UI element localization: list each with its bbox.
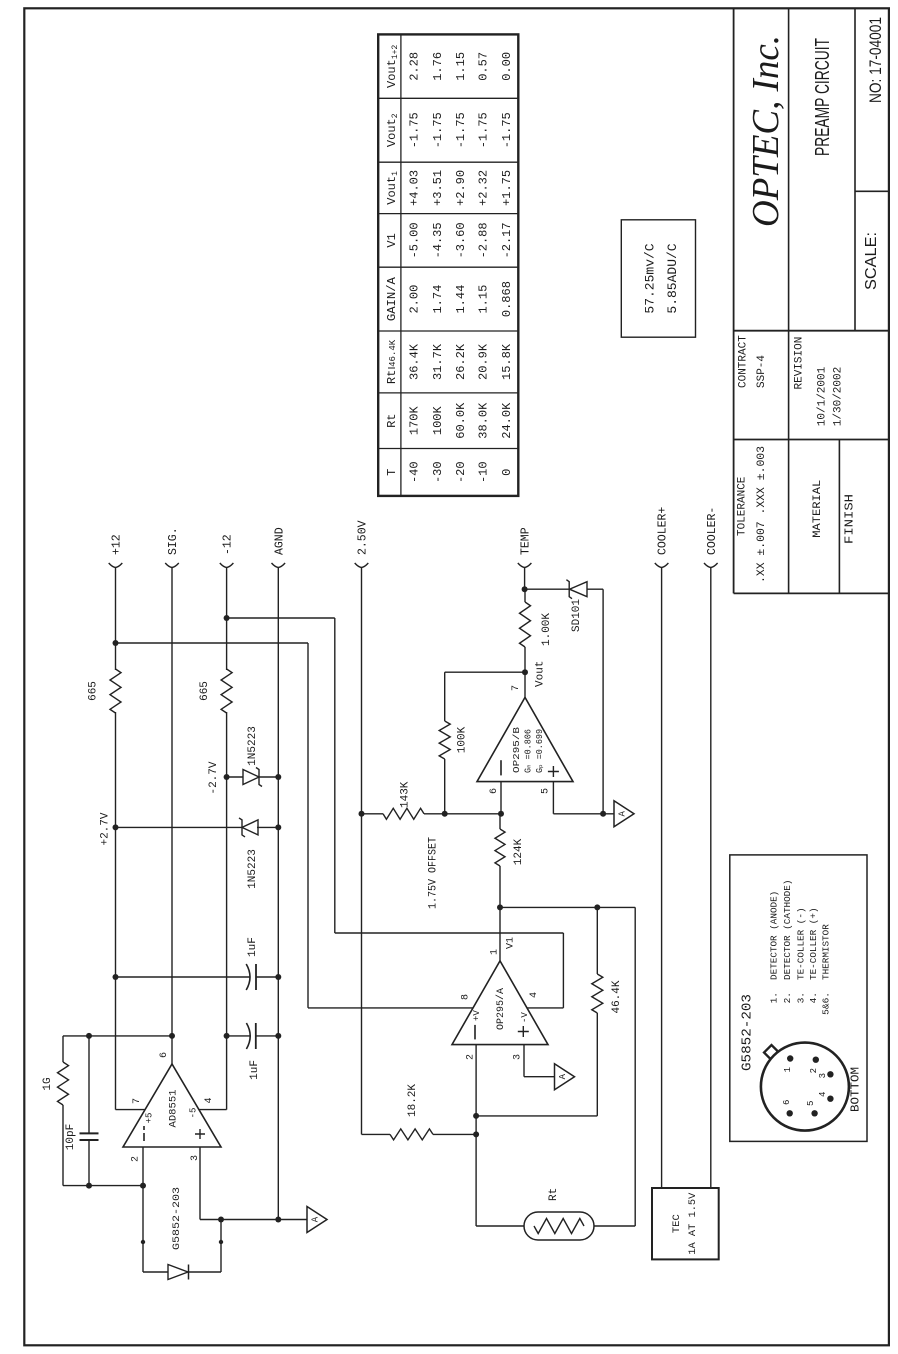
net SIG rail	[171, 568, 173, 1036]
svg-text:46.4K: 46.4K	[611, 980, 623, 1013]
svg-text:+4.03: +4.03	[407, 170, 421, 206]
capacitor C 10pF	[88, 1140, 90, 1186]
pin 3 wire	[199, 1147, 201, 1220]
svg-text:THERMISTOR: THERMISTOR	[820, 924, 831, 980]
svg-text:10pF: 10pF	[65, 1124, 77, 1150]
wire +2.7V rail	[116, 826, 243, 828]
svg-text:-10: -10	[476, 461, 490, 483]
svg-text:1uF: 1uF	[249, 1060, 261, 1080]
svg-text:18.2K: 18.2K	[407, 1084, 419, 1117]
node +2.7V junction	[113, 824, 119, 830]
svg-text:5: 5	[806, 1101, 816, 1106]
wire pin3 net to diode	[220, 1220, 222, 1273]
svg-text:OP295/B: OP295/B	[511, 727, 522, 773]
node Vout	[522, 669, 528, 675]
svg-text:0.868: 0.868	[500, 281, 514, 317]
svg-text:6: 6	[489, 788, 500, 794]
svg-text:665: 665	[199, 681, 211, 701]
svg-text:5: 5	[541, 788, 552, 794]
ground A (OP295/B)	[614, 801, 634, 827]
svg-text:G5852-203: G5852-203	[740, 994, 756, 1071]
svg-text:1.44: 1.44	[454, 285, 468, 314]
svg-text:Gₙ =0.806: Gₙ =0.806	[524, 729, 534, 773]
svg-text:2.50V: 2.50V	[357, 520, 370, 555]
pin 5	[811, 1110, 817, 1116]
resistor R 143K (1.75V offset)	[362, 813, 384, 815]
svg-text:0.57: 0.57	[476, 52, 490, 81]
svg-text:-2.7V: -2.7V	[208, 761, 220, 794]
svg-text:TOLERANCE: TOLERANCE	[737, 476, 749, 536]
net TEMP wire	[524, 568, 526, 590]
svg-text:.XX ±.007 .XXX ±.003: .XX ±.007 .XXX ±.003	[756, 446, 768, 583]
svg-text:1A AT 1.5V: 1A AT 1.5V	[687, 1192, 699, 1255]
connector +12	[109, 563, 123, 568]
svg-text:20.9K: 20.9K	[476, 343, 490, 380]
wire ground drop (stage1)	[200, 1219, 307, 1221]
svg-text:1.76: 1.76	[431, 52, 445, 81]
svg-text:1: 1	[490, 949, 501, 955]
svg-text:+1.75: +1.75	[500, 170, 514, 206]
title block	[733, 8, 735, 593]
svg-text:MATERIAL: MATERIAL	[812, 480, 824, 538]
svg-text:-1.75: -1.75	[500, 112, 514, 148]
svg-text:3: 3	[818, 1073, 828, 1078]
svg-text:7: 7	[511, 685, 522, 691]
wire V1 vertical	[500, 906, 635, 908]
pin 6	[787, 1110, 793, 1116]
svg-text:3: 3	[513, 1054, 524, 1060]
svg-text:OPTEC, Inc.: OPTEC, Inc.	[745, 35, 787, 227]
svg-text:-5.00: -5.00	[407, 222, 421, 258]
pin 4	[827, 1096, 833, 1102]
svg-text:TEMP: TEMP	[520, 527, 533, 555]
zener D 1N5223 (+2.7V)	[242, 820, 258, 835]
pin 5 wire	[552, 782, 554, 814]
connector COOLER+	[655, 563, 669, 568]
svg-text:-2.17: -2.17	[500, 222, 514, 258]
TEC block	[652, 1188, 719, 1259]
svg-text:2.00: 2.00	[407, 285, 421, 314]
pin 3 wire	[523, 1045, 525, 1077]
diode SD101	[525, 588, 570, 590]
node TEMP junction	[522, 586, 528, 592]
svg-text:+2.90: +2.90	[454, 170, 468, 206]
svg-text:SCALE:: SCALE:	[863, 232, 880, 290]
svg-text:-V: -V	[520, 1012, 530, 1023]
G5852-203 pinout box	[730, 855, 867, 1142]
data table	[378, 34, 518, 496]
svg-text:5.85ADU/C: 5.85ADU/C	[665, 243, 680, 313]
pin 7 (+5) wire	[116, 1109, 145, 1111]
svg-text:-12: -12	[222, 534, 235, 555]
svg-text:BOTTOM: BOTTOM	[849, 1067, 863, 1112]
connector -12	[220, 563, 234, 568]
svg-text:Rt: Rt	[385, 413, 399, 427]
svg-text:+12: +12	[111, 534, 124, 555]
svg-text:TE-COLLER (-): TE-COLLER (-)	[796, 907, 807, 980]
resistor R 1.00K	[524, 647, 526, 672]
svg-text:SSP-4: SSP-4	[756, 355, 768, 388]
capacitor 1uF (+2.7 to AGND)	[113, 974, 119, 980]
pin 2 wire	[142, 1147, 144, 1272]
svg-text:AD8551: AD8551	[169, 1090, 180, 1128]
svg-text:10/1/2001: 10/1/2001	[817, 366, 829, 426]
net +12 rail	[115, 568, 117, 671]
svg-text:SD101: SD101	[571, 599, 583, 632]
svg-text:NO: 17-04001: NO: 17-04001	[866, 17, 885, 103]
svg-text:1: 1	[783, 1067, 793, 1072]
svg-text:Vout2: Vout2	[385, 113, 400, 147]
resistor R 124K	[499, 866, 501, 907]
pin 2 wire (inverting)	[475, 1045, 477, 1226]
node -2.7V junction	[224, 774, 230, 780]
svg-text:+2.32: +2.32	[476, 170, 490, 206]
svg-text:38.0K: 38.0K	[476, 402, 490, 439]
net COOLER+ wire	[661, 568, 663, 1189]
wire SD101 return	[602, 589, 604, 814]
net AGND rail	[277, 568, 279, 1220]
svg-text:-40: -40	[407, 461, 421, 483]
svg-text:1.15: 1.15	[454, 52, 468, 81]
node SIG/output junction	[169, 1033, 175, 1039]
resistor R 665 (+12)	[110, 669, 121, 713]
pin 6 output wire	[171, 1036, 173, 1064]
svg-text:1/30/2002: 1/30/2002	[833, 367, 845, 426]
svg-text:2.28: 2.28	[407, 52, 421, 81]
svg-text:124K: 124K	[513, 838, 525, 865]
op-amp U OP295/B	[477, 697, 573, 781]
svg-text:26.2K: 26.2K	[454, 343, 468, 380]
photodiode G5852-203	[143, 1271, 168, 1273]
svg-text:4: 4	[818, 1092, 828, 1097]
svg-text:1.75V OFFSET: 1.75V OFFSET	[428, 837, 440, 909]
op-amp U AD8551	[123, 1064, 221, 1147]
connector SIG	[165, 563, 179, 568]
svg-text:+5: +5	[145, 1113, 155, 1124]
svg-text:8: 8	[461, 994, 472, 1000]
connector AGND	[272, 563, 286, 568]
svg-text:GAIN/A: GAIN/A	[385, 276, 399, 321]
svg-text:FINISH: FINISH	[844, 494, 857, 544]
svg-text:-1.75: -1.75	[476, 112, 490, 148]
svg-text:+3.51: +3.51	[431, 170, 445, 206]
net 2.50V rail	[361, 568, 363, 1135]
ground A (stage1)	[307, 1207, 327, 1233]
svg-text:1uF: 1uF	[247, 937, 259, 957]
svg-text:T: T	[385, 469, 399, 476]
connector 2.50V	[355, 563, 369, 568]
op-amp U OP295/A	[452, 961, 548, 1045]
connector COOLER-	[704, 563, 718, 568]
svg-text:2: 2	[131, 1156, 142, 1162]
svg-text:V1: V1	[506, 937, 517, 949]
wire +V supply route	[113, 640, 119, 646]
connector TEMP	[518, 563, 532, 568]
pin 7 output wire	[524, 672, 526, 697]
svg-text:-1.75: -1.75	[431, 112, 445, 148]
svg-text:AGND: AGND	[273, 527, 286, 555]
svg-text:7: 7	[132, 1098, 143, 1104]
wire feedback right vertical	[63, 1035, 172, 1037]
svg-text:DETECTOR (ANODE): DETECTOR (ANODE)	[769, 891, 780, 980]
zener D 1N5223 (-2.7V)	[243, 770, 259, 785]
svg-text:31.7K: 31.7K	[431, 343, 445, 380]
svg-text:-30: -30	[431, 461, 445, 483]
ground A (OP295/A)	[555, 1064, 575, 1090]
svg-text:CONTRACT: CONTRACT	[738, 335, 750, 388]
svg-text:3.: 3.	[796, 992, 807, 1003]
svg-text:143K: 143K	[400, 781, 412, 808]
svg-text:G5852-203: G5852-203	[171, 1187, 183, 1250]
resistor R 1G feedback	[62, 1105, 64, 1186]
wire -2.7V rail	[227, 776, 243, 778]
wire 2.50V to 143K junction	[359, 811, 365, 817]
resistor R 18.2K	[362, 1133, 391, 1135]
svg-text:60.0K: 60.0K	[454, 402, 468, 439]
net COOLER- wire	[710, 568, 712, 1189]
svg-text:100K: 100K	[457, 726, 469, 753]
resistor R 46.4K feedback	[596, 1013, 598, 1116]
svg-text:Vout: Vout	[535, 661, 547, 687]
svg-text:-3.60: -3.60	[454, 222, 468, 258]
pin 6 wire	[500, 782, 502, 814]
svg-text:COOLER-: COOLER-	[706, 507, 719, 555]
resistor R 100K feedback	[444, 759, 446, 814]
svg-text:-4.35: -4.35	[431, 222, 445, 258]
svg-text:1.15: 1.15	[476, 285, 490, 314]
svg-text:A: A	[558, 1073, 568, 1079]
svg-text:100K: 100K	[431, 406, 445, 436]
svg-text:0: 0	[500, 469, 514, 476]
svg-text:TE-COLLER (+): TE-COLLER (+)	[808, 907, 819, 980]
wire -V supply route	[224, 615, 230, 621]
gain summary box	[621, 220, 695, 337]
svg-text:24.0K: 24.0K	[500, 402, 514, 439]
svg-text:1N5223: 1N5223	[247, 726, 259, 766]
svg-text:4: 4	[529, 992, 540, 998]
svg-text:+V: +V	[472, 1010, 482, 1021]
svg-text:15.8K: 15.8K	[500, 343, 514, 380]
net -12 rail	[226, 568, 228, 671]
svg-text:-2.88: -2.88	[476, 222, 490, 258]
pin 2	[813, 1057, 819, 1063]
svg-text:A: A	[618, 811, 628, 817]
svg-text:36.4K: 36.4K	[407, 343, 421, 380]
svg-text:TEC: TEC	[671, 1214, 683, 1233]
svg-text:OP295/A: OP295/A	[495, 988, 507, 1030]
svg-text:2.: 2.	[782, 992, 793, 1003]
resistor R 665 (-12)	[221, 669, 232, 713]
svg-text:COOLER+: COOLER+	[657, 507, 670, 555]
svg-text:DETECTOR (CATHODE): DETECTOR (CATHODE)	[782, 880, 793, 980]
wire Vout vertical (100K)	[445, 671, 525, 673]
capacitor 1uF (-12 to AGND)	[224, 1033, 230, 1039]
svg-text:1.00K: 1.00K	[541, 613, 553, 646]
key tab	[764, 1045, 778, 1059]
pin 1	[787, 1055, 793, 1061]
svg-text:PREAMP CIRCUIT: PREAMP CIRCUIT	[812, 38, 834, 156]
svg-text:1.74: 1.74	[431, 285, 445, 314]
svg-text:V1: V1	[385, 233, 399, 247]
connector circle (bottom view)	[761, 1043, 849, 1131]
svg-text:1N5223: 1N5223	[247, 849, 259, 889]
svg-text:3: 3	[190, 1155, 201, 1161]
svg-text:Vout1: Vout1	[385, 171, 400, 205]
svg-text:57.25mv/C: 57.25mv/C	[643, 243, 658, 313]
svg-text:6: 6	[782, 1100, 792, 1105]
svg-text:REVISION: REVISION	[794, 337, 806, 390]
wire pin6 drop	[445, 813, 501, 815]
pin 4 (-5) wire	[199, 1109, 227, 1111]
svg-text:-20: -20	[454, 461, 468, 483]
svg-text:-5: -5	[189, 1108, 199, 1119]
svg-text:-1.75: -1.75	[454, 112, 468, 148]
svg-text:+2.7V: +2.7V	[100, 812, 112, 845]
node feedback junctions	[86, 1033, 92, 1039]
svg-text:Gₚ =0.699: Gₚ =0.699	[535, 729, 545, 773]
pin 3	[827, 1071, 833, 1077]
svg-text:Rt: Rt	[548, 1188, 560, 1201]
svg-text:4.: 4.	[808, 992, 819, 1003]
thermistor Rt	[476, 1225, 524, 1227]
svg-text:-1.75: -1.75	[407, 112, 421, 148]
svg-text:4: 4	[204, 1097, 215, 1103]
svg-text:0.00: 0.00	[500, 52, 514, 81]
svg-text:170K: 170K	[407, 406, 421, 436]
wire feedback left vertical	[63, 1185, 143, 1187]
svg-text:1G: 1G	[42, 1077, 54, 1090]
svg-text:6: 6	[159, 1052, 170, 1058]
svg-text:1.: 1.	[769, 992, 780, 1003]
svg-text:A: A	[311, 1216, 321, 1222]
svg-text:Rt‖46.4K: Rt‖46.4K	[385, 339, 399, 384]
svg-text:SIG.: SIG.	[167, 527, 180, 555]
svg-text:2: 2	[466, 1054, 477, 1060]
pin 1 output wire / V1 node	[499, 907, 501, 960]
svg-text:665: 665	[88, 681, 100, 701]
svg-text:5&6.: 5&6.	[820, 992, 831, 1015]
